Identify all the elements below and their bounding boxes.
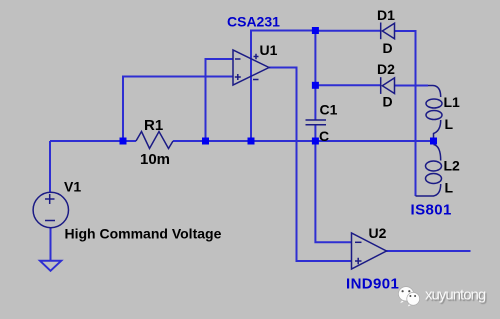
wire U1 inverting feedback: bus to - input — [206, 59, 234, 141]
wire main bus left of R1 — [50, 140, 136, 142]
node junction bus/C1 — [312, 138, 319, 145]
svg-text:L1: L1 — [444, 94, 461, 110]
inductor L1 loop 1 — [426, 99, 442, 108]
watermark wechat icon — [398, 287, 419, 307]
wire main bus right of R1 — [173, 140, 434, 142]
svg-text:D2: D2 — [377, 61, 395, 77]
node junction bus/L1-L2 — [430, 138, 437, 145]
op-amp U1 supply minus mark — [253, 79, 259, 81]
svg-text:R1: R1 — [144, 117, 163, 134]
svg-text:High Command Voltage: High Command Voltage — [65, 226, 222, 242]
op-amp U2 input minus mark — [355, 241, 362, 243]
op-amp U2 triangle — [352, 233, 387, 269]
source V1 minus mark — [45, 220, 55, 222]
svg-text:CSA231: CSA231 — [227, 14, 280, 30]
wire U1 output down to U2 + input — [269, 68, 352, 262]
diode D2 cathode bar — [380, 77, 382, 94]
inductor L1 loop 2 — [426, 111, 442, 120]
wire D2 anode to L1 top — [395, 85, 429, 87]
svg-text:L: L — [445, 116, 454, 132]
ground — [40, 261, 61, 271]
diode D2 triangle — [382, 78, 394, 94]
resistor R1 — [136, 132, 173, 149]
op-amp U1 triangle — [233, 50, 269, 85]
svg-text:L2: L2 — [444, 158, 461, 174]
inductor L1 bottom lead — [434, 120, 441, 138]
wire node column: D1 node down to D2 node — [314, 31, 316, 86]
op-amp U1 input minus mark — [235, 58, 241, 60]
op-amp U1 input plus mark — [235, 74, 241, 80]
node junction bus/R1 left — [120, 138, 127, 145]
inductor L2 loop 1 — [426, 161, 442, 171]
svg-text:U1: U1 — [260, 42, 278, 58]
wire bus node to U2 - input — [315, 141, 351, 242]
svg-text:D: D — [383, 40, 393, 56]
inductor L1 top lead — [428, 86, 441, 98]
node junction bus/U1 supply — [248, 138, 255, 145]
capacitor C1 bottom plate — [306, 124, 327, 126]
inductor L2 top lead — [434, 145, 441, 161]
capacitor C1 top plate — [306, 119, 327, 121]
svg-text:C1: C1 — [320, 102, 338, 118]
wire U1 supply vertical and top rail to node — [251, 31, 316, 142]
wire C1 bottom plate to bus — [314, 125, 316, 141]
wire D1 anode to L2 bottom vertical — [395, 31, 416, 196]
svg-text:V1: V1 — [64, 179, 81, 195]
svg-text:L: L — [445, 180, 454, 196]
svg-text:D: D — [383, 94, 393, 110]
diode D1 cathode bar — [380, 23, 382, 40]
inductor L2 bottom lead — [416, 184, 441, 196]
svg-text:10m: 10m — [140, 151, 170, 168]
wire D2 cathode lead — [315, 84, 381, 86]
op-amp U2 input plus mark — [355, 258, 362, 264]
svg-text:xuyuntong: xuyuntong — [425, 287, 486, 304]
svg-text:IND901: IND901 — [346, 276, 399, 293]
node junction bus/U1 inverting feedback — [202, 138, 209, 145]
op-amp U1 supply plus mark — [254, 54, 259, 59]
svg-text:IS801: IS801 — [411, 202, 452, 219]
source V1 plus mark — [45, 194, 55, 204]
wire V1 top lead — [49, 141, 51, 192]
wire D2 node down to C1 top plate — [314, 85, 316, 120]
wire V1 bottom lead — [50, 228, 52, 261]
wire U2 output — [387, 250, 471, 252]
wire U1 noninverting feedback: bus to + input — [123, 77, 233, 142]
source V1 circle — [33, 192, 68, 227]
svg-text:C: C — [319, 128, 329, 144]
wire D1 cathode lead — [315, 30, 381, 32]
svg-text:U2: U2 — [369, 225, 387, 241]
node junction supply rail/D1 — [312, 27, 319, 34]
svg-text:D1: D1 — [377, 7, 395, 23]
node junction column/D2 — [312, 82, 319, 89]
diode D1 triangle — [382, 23, 394, 39]
inductor L2 loop 2 — [426, 174, 442, 184]
